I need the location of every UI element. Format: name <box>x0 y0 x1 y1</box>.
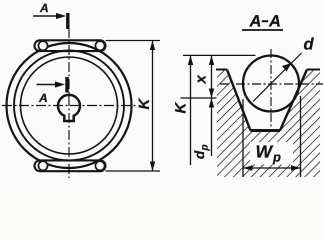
svg-text:x: x <box>193 75 210 85</box>
svg-text:p: p <box>200 144 211 151</box>
svg-text:p: p <box>272 150 281 165</box>
svg-text:K: K <box>173 102 190 114</box>
svg-text:K: K <box>136 98 153 110</box>
svg-text:A: A <box>249 13 262 31</box>
svg-text:A: A <box>39 1 49 15</box>
svg-text:A: A <box>38 91 48 105</box>
svg-text:d: d <box>304 36 315 54</box>
svg-text:A: A <box>268 13 281 31</box>
svg-text:W: W <box>256 142 274 162</box>
